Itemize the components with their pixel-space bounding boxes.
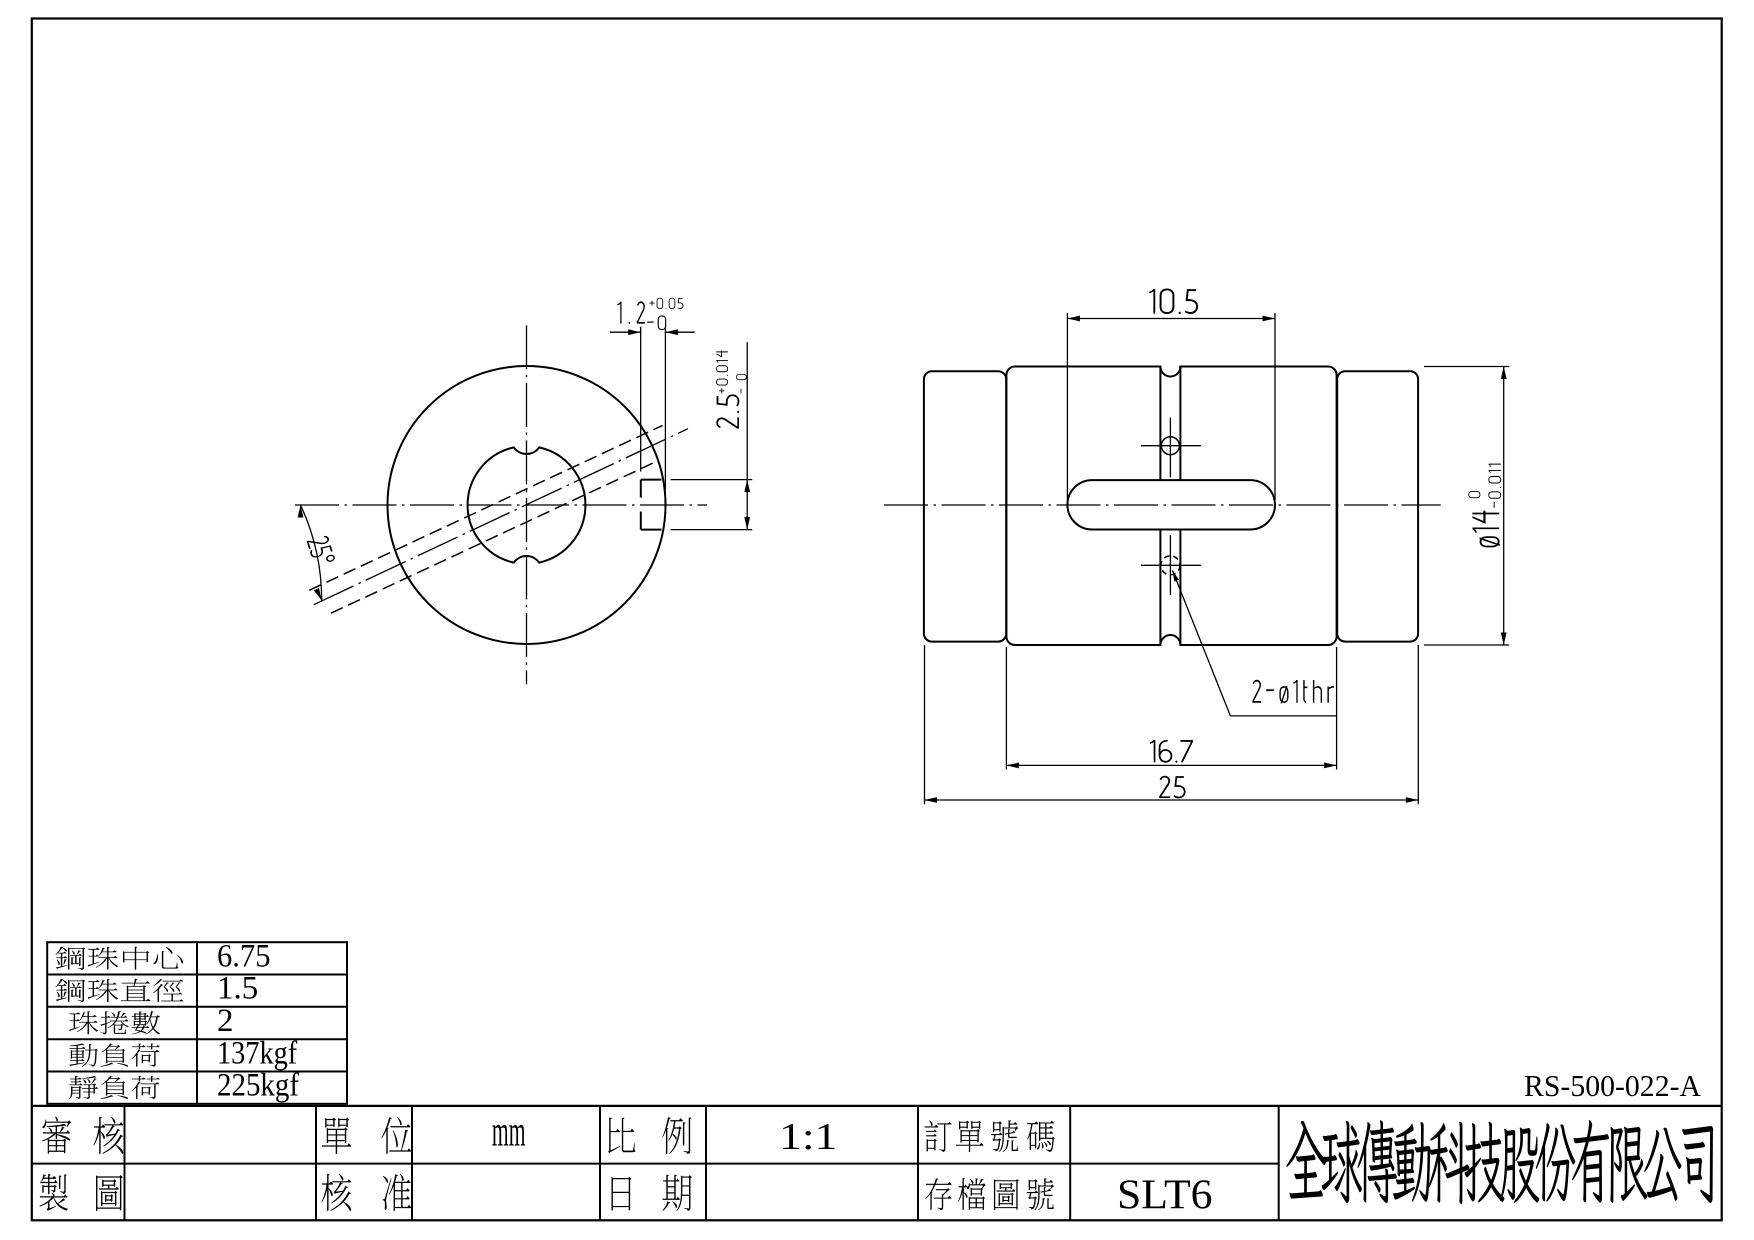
svg-text:137kgf: 137kgf	[217, 1035, 297, 1071]
svg-text:mm: mm	[492, 1109, 526, 1156]
svg-text:1:1: 1:1	[779, 1116, 837, 1158]
svg-text:2: 2	[217, 1003, 234, 1039]
svg-text:RS-500-022-A: RS-500-022-A	[1524, 1068, 1702, 1103]
svg-text:225kgf: 225kgf	[217, 1068, 299, 1104]
svg-text:6.75: 6.75	[217, 938, 271, 974]
svg-text:SLT6: SLT6	[1117, 1173, 1213, 1219]
svg-text:1.5: 1.5	[217, 971, 258, 1007]
